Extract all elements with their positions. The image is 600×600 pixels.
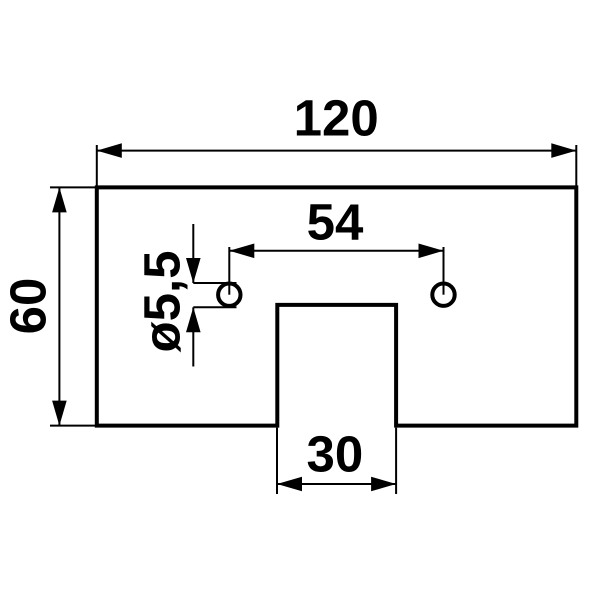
hole left (ø5,5) (218, 284, 240, 306)
dimension ø5,5: leader line top tangent (193, 282, 236, 284)
dimension 30: extension line left (276, 428, 278, 494)
svg-text:ø5,5: ø5,5 (133, 250, 190, 352)
dimension ø5,5: upper dimension line with down arrowhead (186, 224, 201, 283)
dimension 60: arrowhead bottom (52, 401, 67, 426)
dimension 54: dimension line (229, 250, 443, 252)
dimension 54: arrowhead left (229, 244, 254, 259)
hole right (ø5,5) (432, 284, 454, 306)
dimension 30: value label (307, 426, 364, 483)
dimension 120: arrowhead left (97, 143, 122, 158)
dimension 30: arrowhead right (371, 477, 396, 492)
svg-text:30: 30 (307, 426, 364, 483)
dimension 54: arrowhead right (419, 244, 444, 259)
dimension 54: extension line left (into left hole) (228, 247, 230, 295)
dimension ø5,5: leader line bottom tangent (193, 306, 236, 308)
dimension 60: value label (rotated) (0, 278, 57, 335)
dimension 120: value label (294, 90, 379, 147)
svg-text:60: 60 (0, 278, 57, 335)
dimension 60: dimension line (58, 187, 60, 425)
dimension 120: extension line left (96, 145, 98, 187)
svg-text:120: 120 (294, 90, 379, 147)
dimension 30: extension line right (395, 428, 397, 494)
dimension 60: extension line bottom (50, 425, 97, 427)
dimension 54: extension line right (into right hole) (443, 247, 445, 295)
dimension 60: arrowhead top (52, 187, 67, 212)
dimension 120: dimension line (97, 150, 577, 152)
dimension 54: value label (307, 194, 364, 251)
dimension 120: arrowhead right (551, 143, 576, 158)
dimension ø5,5: lower dimension line with up arrowhead (186, 307, 201, 366)
dimension 60: extension line top (50, 186, 97, 188)
dimension 120: extension line right (575, 145, 577, 187)
dimension 30: dimension line (277, 483, 396, 485)
svg-text:54: 54 (307, 194, 364, 251)
plate outline with bottom notch (97, 187, 577, 425)
dimension ø5,5: value label (rotated) (133, 250, 190, 352)
dimension 30: arrowhead left (277, 477, 302, 492)
